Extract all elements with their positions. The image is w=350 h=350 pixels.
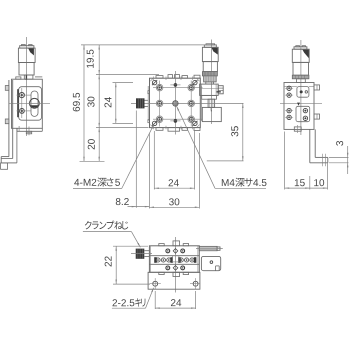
micrometer bracket (200, 84, 219, 99)
counterbore hole B1 (188, 84, 195, 91)
M4 center hole (173, 101, 178, 106)
M2 corner screw top-left (152, 80, 157, 85)
left view screw top (17, 93, 32, 98)
right view pointer mark (297, 103, 300, 106)
small hole top (170, 83, 180, 87)
right view centerline (300, 40, 302, 135)
counterbore hole B3 (188, 116, 195, 123)
left view side screw tab top (5, 86, 9, 91)
center view row lines (153, 88, 203, 120)
right view neck (297, 79, 306, 83)
left view L-bracket foot (1, 128, 17, 163)
right view horizontal centerline (280, 102, 322, 104)
M2 corner screw bottom-right (192, 121, 197, 126)
bottom view clamp centerline (131, 253, 152, 255)
left view clamp knob circle (28, 98, 40, 108)
micrometer stem (208, 99, 215, 107)
left view stage body (12, 79, 43, 128)
center diamond top (173, 249, 178, 254)
bottom view screw 3 (166, 266, 170, 270)
M2 corner screw bottom-left (152, 121, 157, 126)
dimension 35 (199, 103, 244, 160)
bearing ball 6 (190, 258, 194, 262)
left view foot pad (1, 163, 8, 169)
right view side tab bottom (314, 114, 320, 119)
extension line bottom (80, 160, 105, 162)
center view plate (150, 78, 201, 127)
flange hole left (150, 278, 161, 289)
extension line 24h right (194, 131, 196, 190)
counterbore hole A2 (156, 100, 163, 107)
bottom view inner edges (151, 246, 198, 272)
micrometer thimble (202, 47, 218, 61)
extension line 24 bottom (113, 122, 134, 124)
dimension 15 (285, 179, 310, 189)
counterbore hole A1 (156, 84, 163, 91)
bearing ball 1 (156, 258, 160, 262)
right view screw 4 (285, 115, 293, 119)
micrometer lock ring (202, 72, 217, 76)
dimension 10 (310, 179, 328, 189)
right view L-bracket foot (310, 154, 328, 167)
right view upper pocket (284, 87, 314, 98)
extension line top (81, 44, 212, 46)
right view micrometer thimble (292, 49, 309, 62)
counterbore hole B2 (188, 100, 195, 107)
left view spindle (25, 75, 27, 80)
center view top edge bumps (154, 75, 201, 80)
left view micrometer neck (16, 75, 43, 79)
bearing ball 5 (185, 258, 189, 262)
extension line 15 left (284, 132, 286, 190)
extension line 30h left (148, 133, 150, 209)
dimension 24 bottom (155, 291, 195, 309)
bearing ball 2 (161, 258, 165, 262)
dimension 24 horizontal (154, 179, 194, 189)
callout 2-2.5 drill (112, 288, 154, 309)
rail end blocks (154, 257, 196, 263)
micrometer spindle neck (206, 82, 214, 84)
bottom view top tabs (159, 241, 189, 246)
bearing ball 4 (179, 258, 183, 262)
center view column centerlines (160, 81, 192, 127)
left view horizontal centerline (9, 102, 50, 104)
dimension 22 (105, 246, 150, 284)
dimension 30 vertical (87, 75, 100, 128)
M2 corner screw top-right (192, 80, 197, 85)
extension line 8.2 left (135, 111, 137, 208)
small hole bottom (170, 119, 180, 123)
right view L-bracket bar (310, 129, 315, 162)
callout clamp screw (83, 221, 140, 248)
right view screw 1 (285, 86, 293, 90)
right view screw 3 (285, 108, 293, 112)
right view screw 2 (285, 93, 293, 97)
extension line 30/20 (96, 127, 149, 129)
micrometer barrel (203, 62, 217, 72)
right view side tab top (314, 85, 320, 90)
plate corner ticks (150, 79, 199, 128)
left view gib line (17, 89, 19, 117)
bottom view bracket plate (201, 256, 220, 270)
left view body plate (19, 87, 42, 121)
bottom view bottom tabs (159, 272, 189, 276)
bottom view clamp stem (144, 251, 149, 257)
left view bottom tab with cross (19, 126, 32, 135)
extension line 19.5/30 (96, 74, 159, 76)
right view body (284, 83, 314, 130)
center view bottom edge bumps (154, 126, 201, 131)
bottom view screw 1 (166, 249, 170, 253)
bottom view micrometer sleeve (196, 246, 223, 250)
center view left edge nubs (148, 91, 150, 123)
left view micrometer barrel (19, 63, 34, 76)
left view screw column line (21, 88, 23, 118)
right view lower pocket (296, 106, 310, 121)
right view bottom tab (294, 125, 301, 133)
bottom view screw 2 (181, 249, 185, 253)
micrometer cap (204, 44, 216, 48)
bottom view clamp knob (136, 249, 145, 259)
left view slot (31, 91, 38, 116)
extension line 15/10 middle (309, 176, 311, 190)
flange hole right (190, 278, 200, 289)
extension line 24 top (113, 82, 134, 84)
left view bottom plate (17, 128, 42, 131)
bottom view rail lines (149, 256, 199, 265)
center view vertical centerline (174, 71, 176, 135)
micrometer mount block (202, 107, 221, 121)
callout 4-M2 depth 5 (73, 125, 154, 189)
bottom view flange (148, 272, 200, 289)
right view lock ring (292, 75, 309, 79)
left view side screw tab bottom (5, 119, 9, 124)
left view L-bracket bar (9, 80, 13, 159)
extension line 30h right (198, 133, 200, 209)
extension line 10 right (327, 163, 329, 190)
counterbore hole A3 (156, 116, 163, 123)
extension line 24h left (153, 131, 155, 190)
carriage center mark (173, 256, 179, 262)
dimension 24 vertical (104, 83, 116, 124)
left view centerline (25, 37, 27, 136)
center view clamp stem (145, 100, 148, 106)
center view clamp knob (136, 98, 145, 108)
micrometer knurl ring 2 (204, 76, 217, 82)
dimension 8.2 (116, 198, 150, 207)
bottom view vertical centerline (174, 237, 176, 293)
right view micrometer barrel (293, 62, 309, 75)
center view horizontal centerline (131, 102, 199, 104)
center view base edges (148, 86, 201, 121)
dimension 30 horizontal (149, 198, 199, 208)
left view screw bottom (17, 109, 32, 114)
dimension 20 (88, 128, 100, 162)
center diamond bottom (173, 266, 178, 271)
dimension 3 (329, 141, 349, 174)
micrometer clamp knob side (217, 86, 224, 94)
bottom view screw 4 (181, 266, 185, 270)
dimension 69.5 (73, 45, 85, 161)
left view micrometer cap (20, 45, 34, 49)
left view micrometer thimble (18, 48, 35, 62)
right view micrometer cap (294, 46, 307, 50)
callout M4 depth 4.5 (177, 106, 267, 188)
bearing ball 3 (167, 258, 171, 262)
bottom view body (149, 246, 199, 272)
dimension 19.5 (87, 45, 100, 75)
micrometer centerline (211, 40, 213, 125)
